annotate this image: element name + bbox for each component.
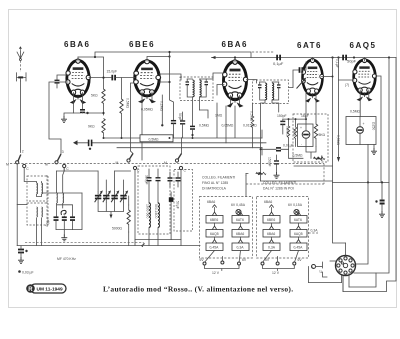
junction dot xyxy=(337,56,339,58)
wire V5 pins down xyxy=(360,90,369,117)
junction dot xyxy=(192,137,194,139)
svg-text:0,05MΩ: 0,05MΩ xyxy=(222,124,234,128)
wire V5 grid left pin xyxy=(339,79,355,81)
svg-text:6BE6: 6BE6 xyxy=(129,40,155,49)
resistor 0,5M AVC vertical xyxy=(120,78,123,138)
capacitor 0,01uF xyxy=(260,148,289,151)
svg-text:0,5MΩ: 0,5MΩ xyxy=(126,98,130,109)
svg-text:0,3A: 0,3A xyxy=(268,245,276,249)
lamp box2 xyxy=(294,209,299,214)
svg-text:6V 0,15A: 6V 0,15A xyxy=(288,203,303,207)
wire MF2 bottom leads xyxy=(261,100,279,181)
svg-text:6V: 6V xyxy=(200,258,205,262)
svg-text:5KΩ: 5KΩ xyxy=(319,133,326,137)
wire cap to V2 grid xyxy=(116,77,135,79)
junction dot xyxy=(332,76,334,78)
svg-text:+: + xyxy=(300,126,302,130)
wire xyxy=(115,170,131,172)
svg-text:1MΩ: 1MΩ xyxy=(215,114,223,118)
wire V2 plate to MF1 xyxy=(160,74,182,80)
wire V4 plate to x336 xyxy=(322,76,333,78)
svg-text:COLLEG. FILAMENTI: COLLEG. FILAMENTI xyxy=(263,181,296,185)
resistor 0,2M cathode column xyxy=(161,95,163,127)
wire vertical x336 xyxy=(332,58,334,183)
wire xyxy=(338,155,340,158)
wire y166 under 6AT6 box xyxy=(294,165,333,167)
wire rail B y142.8 with arrow xyxy=(76,142,262,144)
svg-text:0,03 µF: 0,03 µF xyxy=(22,271,34,275)
wire box A exit xyxy=(37,193,83,197)
svg-text:50µF: 50µF xyxy=(176,201,180,209)
svg-text:(7): (7) xyxy=(345,83,349,87)
svg-text:MF 470 KHz: MF 470 KHz xyxy=(57,257,76,261)
wire V2 top link xyxy=(147,57,170,62)
svg-text:6AQ5: 6AQ5 xyxy=(210,232,219,236)
svg-text:150pF: 150pF xyxy=(268,157,272,167)
arrowhead xyxy=(259,172,263,175)
title box1 xyxy=(202,176,235,191)
resistor 0,5M vertical det xyxy=(287,119,290,149)
wire V2 lower grid left xyxy=(131,83,135,87)
dashed wire xyxy=(309,232,319,234)
svg-text:150pF: 150pF xyxy=(277,114,287,118)
junction dot xyxy=(353,56,355,58)
svg-text:6V: 6V xyxy=(242,258,247,262)
junction dot xyxy=(103,137,105,139)
ground detector xyxy=(274,172,280,178)
wire gang feeds xyxy=(57,170,99,172)
svg-text:6BA6: 6BA6 xyxy=(236,232,244,236)
wire xyxy=(371,148,377,154)
svg-text:6AT6: 6AT6 xyxy=(294,218,302,222)
junction dot xyxy=(102,112,104,114)
svg-text:0,45A: 0,45A xyxy=(210,245,220,249)
wire antenna feed into box A xyxy=(24,168,41,183)
wire padder bottom xyxy=(135,208,181,240)
wire xyxy=(246,173,260,175)
ground below capacitor xyxy=(379,211,385,217)
capacitor 50pF in top rail xyxy=(342,55,347,61)
svg-text:0,5MΩ: 0,5MΩ xyxy=(350,110,361,114)
wire drop to V3 top xyxy=(234,58,236,63)
svg-text:6BE6: 6BE6 xyxy=(267,218,275,222)
junction dot xyxy=(388,56,390,58)
filament cells box2 column A xyxy=(263,205,280,251)
wire xyxy=(61,235,67,241)
svg-text:0,01µF: 0,01µF xyxy=(283,144,294,148)
arrowhead xyxy=(337,157,340,162)
dashed wire xyxy=(186,163,324,165)
resistor 5000ohm xyxy=(127,205,130,232)
curl symbol xyxy=(61,210,66,215)
wire V3 verticals to rails xyxy=(217,103,235,143)
capacitor row (3 fixed) xyxy=(54,216,76,221)
wire S3 C down to rail xyxy=(134,170,136,246)
resistor 1M vertical det xyxy=(294,119,297,146)
svg-text:0,3A: 0,3A xyxy=(311,229,319,233)
wire drop to V5 top xyxy=(364,58,366,62)
tube V1 6BA6 xyxy=(66,59,91,104)
wire x368 down to socket xyxy=(356,145,368,265)
wire xyxy=(245,174,247,176)
svg-text:0,05MΩ: 0,05MΩ xyxy=(141,108,153,112)
junction dot xyxy=(94,56,96,58)
svg-text:5000Ω: 5000Ω xyxy=(112,227,123,231)
wire vertical x341 with arrow xyxy=(338,58,340,156)
svg-text:6AT6: 6AT6 xyxy=(297,41,322,50)
capacitor 150pF xyxy=(280,119,285,134)
svg-text:0,1µF: 0,1µF xyxy=(273,61,284,66)
wire xyxy=(111,190,119,203)
wire xyxy=(349,273,376,287)
dashed coil box A xyxy=(27,176,48,201)
wire socket bottom leads xyxy=(342,274,350,292)
capacitor 0,1uF in top rail xyxy=(276,55,281,61)
svg-text:0,5MΩ: 0,5MΩ xyxy=(149,137,160,141)
svg-text:0,1µF: 0,1µF xyxy=(335,59,339,68)
resistor 9K xyxy=(102,119,105,139)
wire bottom-right h lines xyxy=(309,282,342,284)
filament cells box1 column A xyxy=(206,205,223,251)
svg-text:50pF: 50pF xyxy=(178,113,182,121)
wire xyxy=(142,243,145,247)
tube V5 6AQ5 xyxy=(353,58,377,101)
wire V2 screen right xyxy=(160,52,174,120)
plus terminal right of box2 xyxy=(312,265,324,275)
wire socket top xyxy=(345,243,347,255)
svg-text:50pF: 50pF xyxy=(347,59,357,64)
capacitor 15pF coupling xyxy=(111,75,116,81)
logo pill xyxy=(26,284,66,293)
svg-text:6BA6: 6BA6 xyxy=(64,40,90,49)
switch S3 xyxy=(116,87,141,173)
wires above filament area xyxy=(245,176,247,197)
dashed wire xyxy=(252,51,274,53)
svg-text:Ω250: Ω250 xyxy=(372,122,376,130)
svg-text:M: M xyxy=(116,161,119,165)
electrolytic V5 xyxy=(357,117,365,145)
svg-text:DAL N° 1286 IN POI: DAL N° 1286 IN POI xyxy=(263,187,294,191)
svg-text:0,5MΩ: 0,5MΩ xyxy=(199,124,210,128)
wire screen feed y57 xyxy=(78,57,104,89)
wire xyxy=(200,110,209,118)
svg-text:0,015MΩ: 0,015MΩ xyxy=(243,124,257,128)
wire vertical x389 xyxy=(354,58,389,274)
oscillator coil pair xyxy=(57,168,65,203)
junction dot xyxy=(381,181,383,183)
svg-text:6BA6: 6BA6 xyxy=(207,200,215,204)
junction dot xyxy=(288,118,290,120)
svg-text:0,2MΩ: 0,2MΩ xyxy=(159,101,163,112)
wire top rail left xyxy=(78,52,251,61)
junction dot xyxy=(168,55,170,57)
wire S4 C down to rail xyxy=(180,170,182,246)
wire from + down to y282 xyxy=(308,267,310,283)
svg-text:0,3A: 0,3A xyxy=(237,245,245,249)
arrowhead xyxy=(110,215,113,219)
svg-text:0,45A: 0,45A xyxy=(294,245,304,249)
junction dot xyxy=(234,56,236,58)
capacitor screen bypass V2 xyxy=(171,121,176,138)
dashed coil box B xyxy=(27,203,48,225)
svg-text:+: + xyxy=(363,122,365,126)
wire V3 plate to MF2 xyxy=(247,80,257,84)
terminals box2 xyxy=(261,251,302,276)
capacitor B+ bypass xyxy=(375,182,384,211)
wire S1M branch into box B xyxy=(17,204,27,206)
svg-text:3: 3 xyxy=(62,150,64,154)
component group xyxy=(190,126,195,138)
dashed gang link vertical xyxy=(46,175,48,224)
wire socket left xyxy=(330,260,336,262)
junction dot xyxy=(168,81,170,83)
svg-text:6AQ5: 6AQ5 xyxy=(294,232,303,236)
terminals box1 xyxy=(200,251,247,276)
wire xyxy=(56,193,82,235)
svg-text:2: 2 xyxy=(22,150,24,154)
wire MF1 bottom leads xyxy=(193,97,200,126)
wire V5 plate right xyxy=(375,76,381,182)
resistor 0,5M horizontal to V4 grid xyxy=(289,149,326,161)
boxed resistor 0,5Mohm xyxy=(140,135,173,142)
ground V1 cathode xyxy=(61,116,67,122)
tuning gang (4 trimmers) xyxy=(95,190,103,203)
wire V5 box to ground xyxy=(373,145,375,149)
capacitor 50pF osc xyxy=(180,112,185,148)
dashed wire xyxy=(323,164,325,185)
wire V1 cathode down xyxy=(74,93,83,114)
dashed wire xyxy=(25,242,143,244)
wire gang tops up xyxy=(98,171,123,191)
junction dot xyxy=(367,181,369,183)
svg-text:M: M xyxy=(6,163,9,167)
junction dot xyxy=(295,118,297,120)
second dashed box (padder section) xyxy=(174,170,193,232)
svg-text:1600-560: 1600-560 xyxy=(146,204,150,218)
svg-text:12 V: 12 V xyxy=(212,271,220,275)
wire horizontal y182.4 xyxy=(333,181,390,183)
padder capacitor dark xyxy=(169,192,174,208)
wire xyxy=(333,182,346,243)
svg-text:5KΩ: 5KΩ xyxy=(91,94,98,98)
svg-text:0,5MΩ: 0,5MΩ xyxy=(293,154,304,158)
dashed gang link xyxy=(10,163,186,165)
wire detector top rail xyxy=(283,118,306,120)
switch S1 xyxy=(6,150,29,171)
resistor 0,5M from MF2 xyxy=(251,104,254,148)
junction dot xyxy=(305,118,307,120)
tube V3 6BA6 xyxy=(222,60,247,108)
capacitor osc right 1 xyxy=(168,172,173,187)
svg-text:M: M xyxy=(164,161,167,165)
wire ground rail y246 xyxy=(17,245,200,247)
wire rails right ends into detector xyxy=(262,130,266,155)
dashed box2 xyxy=(257,197,309,259)
filament cells box1 column B xyxy=(232,212,249,251)
svg-text:9KΩ: 9KΩ xyxy=(88,125,95,129)
wire xyxy=(256,172,266,174)
arrowhead xyxy=(212,56,216,59)
wire top rail right xyxy=(212,57,397,59)
solid box around electrolytic xyxy=(298,124,314,147)
junction dot xyxy=(168,51,170,53)
cathode network box V5 xyxy=(346,117,376,145)
junction dot xyxy=(169,137,171,139)
wire rail C y147.7 xyxy=(117,147,262,149)
wire xyxy=(303,62,307,70)
wire V3 cathode xyxy=(230,96,239,105)
switch S2 xyxy=(45,150,69,171)
svg-text:6V: 6V xyxy=(298,258,303,262)
svg-text:L: L xyxy=(320,270,322,274)
antenna symbol xyxy=(17,46,27,81)
wire V2 cathode down xyxy=(142,92,152,160)
wire V3 grid-left lower xyxy=(217,85,224,96)
wire gang bottoms xyxy=(98,203,123,216)
wire xyxy=(103,190,111,203)
svg-text:0,5MΩ: 0,5MΩ xyxy=(336,135,340,146)
wire xyxy=(306,147,316,159)
wire xyxy=(128,196,130,246)
svg-text:6AT6: 6AT6 xyxy=(236,218,244,222)
label 0,03uF xyxy=(18,270,33,274)
wire box B bottoms to rail xyxy=(37,218,42,246)
svg-text:0,5MΩ: 0,5MΩ xyxy=(285,126,289,137)
dashed box1 xyxy=(200,197,253,259)
switch S4 xyxy=(164,148,187,173)
wire S2 feed xyxy=(63,168,65,171)
wire antenna down xyxy=(19,81,21,153)
svg-text:6BA6: 6BA6 xyxy=(267,232,275,236)
wire xyxy=(323,262,328,277)
svg-text:R: R xyxy=(28,287,33,293)
wire B+ vertical x396 xyxy=(343,58,396,292)
capacitor AVC at V1 xyxy=(55,75,69,88)
volume arrow into V4 grid xyxy=(297,78,307,89)
ground at rail left xyxy=(18,257,24,263)
svg-text:350pF: 350pF xyxy=(145,175,149,185)
wire V4 grid cap xyxy=(289,70,299,88)
component group xyxy=(299,67,304,73)
wire drop to V4 top xyxy=(312,58,314,61)
svg-text:-: - xyxy=(301,142,302,146)
tube V4 6AT6 xyxy=(302,58,324,102)
svg-text:COLLEG. FILAMENTI: COLLEG. FILAMENTI xyxy=(202,176,235,180)
wires osc box bottom xyxy=(149,228,158,246)
wire V1 plate right xyxy=(89,77,111,79)
wire V4 down pins xyxy=(306,92,316,119)
resistor 5K screen xyxy=(102,77,105,116)
arrowhead xyxy=(73,140,78,145)
svg-text:15,0pF: 15,0pF xyxy=(107,70,118,74)
electrolytic 16uF xyxy=(300,119,310,147)
svg-text:+: + xyxy=(312,266,314,270)
svg-text:12 V: 12 V xyxy=(272,271,280,275)
dashed box 6AT6 network xyxy=(293,114,328,162)
wire V1 grid to left xyxy=(49,82,68,154)
wire det horizontal y181 xyxy=(261,180,333,182)
wires cap row xyxy=(57,203,73,216)
capacitor 150pF lower xyxy=(274,155,279,172)
svg-text:L’autoradio mod “Rosso.. (V. a: L’autoradio mod “Rosso.. (V. alimentazio… xyxy=(103,285,293,294)
wire rail A y138 xyxy=(104,137,263,139)
svg-text:M: M xyxy=(45,163,48,167)
filament cells box2 column B xyxy=(290,212,307,251)
resistor 5K in 6AT6 box xyxy=(314,114,317,147)
wire MF1 secondary to V3 grid xyxy=(206,73,224,79)
lamp box1 xyxy=(236,209,241,214)
capacitor cathode bypass V1 xyxy=(80,110,104,114)
svg-text:0,5MΩ: 0,5MΩ xyxy=(250,111,254,122)
wire cathode rail y113 xyxy=(64,113,80,116)
electrolytic on rail B xyxy=(89,140,92,150)
svg-text:6BA6: 6BA6 xyxy=(222,40,248,49)
svg-text:UM 11-1949: UM 11-1949 xyxy=(37,287,63,293)
svg-text:6BE6: 6BE6 xyxy=(210,218,218,222)
tube V2 6BE6 xyxy=(134,59,161,103)
electrolytic at rail left end xyxy=(18,246,28,257)
svg-text:FINO AL N° 1285: FINO AL N° 1285 xyxy=(202,181,228,185)
wire xyxy=(120,190,128,203)
title box2 xyxy=(263,181,296,191)
svg-text:6V 0,45A: 6V 0,45A xyxy=(231,203,246,207)
svg-text:6BA6: 6BA6 xyxy=(264,200,272,204)
wire S1 M-contact down to rail xyxy=(16,164,18,246)
svg-text:6AQ5: 6AQ5 xyxy=(350,41,377,50)
dashed wire xyxy=(246,183,324,185)
svg-text:500-1600: 500-1600 xyxy=(154,204,158,218)
junction dot xyxy=(121,137,123,139)
svg-text:DI MATRICOLA: DI MATRICOLA xyxy=(202,187,227,191)
node dots on top rail xyxy=(331,56,333,58)
svg-text:16µF: 16µF xyxy=(301,114,309,118)
capacitor osc right 2 xyxy=(176,172,181,187)
